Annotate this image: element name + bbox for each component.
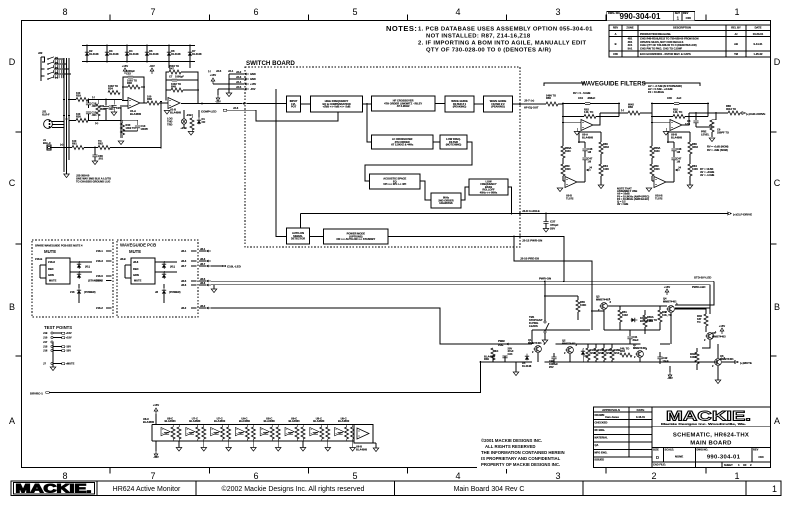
LED red [162, 261, 166, 269]
svg-text:100: 100 [76, 91, 81, 95]
CLF drive long wire [301, 213, 729, 215]
svg-text:4: 4 [455, 7, 460, 17]
svg-text:(PEAKING): (PEAKING) [453, 105, 467, 109]
svg-text:J19: J19 [43, 331, 48, 335]
diode D4 [522, 354, 532, 368]
svg-text:+2dB <-> 0dB <-> -2dB: +2dB <-> 0dB <-> -2dB [323, 105, 351, 109]
LED green [162, 271, 166, 279]
svg-text:SPARE WAVEGUIDE PCB-SEE NOTE 4: SPARE WAVEGUIDE PCB-SEE NOTE 4 [35, 244, 83, 248]
block waveguide filter 1 [445, 96, 474, 112]
svg-text:1000: 1000 [654, 167, 660, 171]
svg-text:DRAWN: DRAWN [595, 413, 605, 417]
capacitor C41 [604, 330, 639, 345]
svg-text:MUTE: MUTE [129, 249, 141, 254]
svg-text:J2-4: J2-4 [236, 80, 242, 84]
driver cell U9-C 6 [285, 416, 305, 441]
svg-text:GND: GND [250, 77, 256, 81]
svg-text:4643: 4643 [654, 149, 660, 153]
svg-text:2213: 2213 [614, 351, 620, 355]
svg-text:AT 2.2KHZ & 44Hz: AT 2.2KHZ & 44Hz [391, 143, 414, 147]
svg-text:TL072: TL072 [566, 196, 574, 200]
size scale dwg row [652, 448, 771, 463]
svg-text:CHG P/N TO PKG. CHG TO C.DWF: CHG P/N TO PKG. CHG TO C.DWF [640, 47, 683, 51]
driver cell ground [325, 441, 331, 451]
svg-text:J8-6: J8-6 [181, 283, 187, 287]
svg-text:PWR-LED: PWR-LED [692, 285, 706, 289]
svg-text:BLA4560: BLA4560 [214, 419, 226, 423]
driver cell U7-C 2 [186, 416, 206, 441]
op-amp U1-A [122, 98, 147, 116]
svg-text:MUTE: MUTE [49, 279, 57, 283]
svg-text:Z16-B: Z16-B [35, 257, 42, 261]
svg-text:9-14-01: 9-14-01 [754, 42, 763, 46]
driver cell ground [226, 441, 232, 451]
svg-text:J8-7: J8-7 [200, 262, 206, 266]
svg-text:D: D [774, 57, 781, 67]
svg-text:AT 2.2KHZ: AT 2.2KHZ [397, 104, 410, 108]
svg-text:A: A [9, 416, 15, 426]
driver row rails [152, 424, 373, 426]
svg-text:J17: J17 [43, 340, 48, 344]
svg-text:C00: C00 [613, 52, 618, 56]
svg-text:1/8: 1/8 [677, 150, 681, 154]
svg-text:10-23-01: 10-23-01 [753, 32, 764, 36]
mute relay box [131, 258, 155, 284]
svg-text:RV = 0 - 5.0dB: RV = 0 - 5.0dB [573, 91, 590, 95]
driver row end ground [373, 443, 379, 452]
svg-text:4643: 4643 [692, 145, 698, 149]
svg-text:TEST POINTS: TEST POINTS [44, 325, 72, 330]
transistor Q5 MMBT4403 [706, 331, 727, 339]
connector J21 XLR [42, 110, 64, 129]
driver cell U7-C 3 [211, 416, 231, 441]
svg-text:C44: C44 [578, 96, 583, 100]
wires PWR-ON turning down [675, 281, 714, 305]
svg-text:-15V: -15V [250, 87, 256, 91]
svg-text:BLA4560: BLA4560 [189, 419, 201, 423]
power resistor Z-power [155, 284, 181, 303]
SPARE WAVEGUIDE PCB-SEE NOTE 4 dashed box [32, 240, 113, 317]
zone tick marks left [16, 131, 22, 133]
bus junction dots [68, 99, 70, 101]
svg-text:MMBT4403: MMBT4403 [712, 335, 726, 339]
svg-text:J8-5: J8-5 [200, 277, 206, 281]
svg-text:+15V: +15V [719, 324, 725, 328]
svg-text:(+)CLF-DRIVE: (+)CLF-DRIVE [733, 212, 752, 216]
svg-text:BLA4560: BLA4560 [143, 420, 155, 424]
svg-text:2003 TO: 2003 TO [169, 64, 179, 68]
svg-text:J2-5: J2-5 [236, 85, 242, 89]
svg-text:+15V: +15V [210, 73, 216, 77]
output stage junctions [544, 361, 546, 363]
filter ladder left column [650, 123, 661, 181]
svg-text:BLA4560: BLA4560 [582, 135, 594, 139]
diode D6 DL4148 [167, 45, 181, 63]
svg-text:MMBT4401: MMBT4401 [528, 341, 542, 345]
svg-text:BLA4560: BLA4560 [164, 419, 176, 423]
svg-text:SWITCH BOARD: SWITCH BOARD [246, 60, 295, 67]
svg-text:QA: QA [595, 443, 599, 447]
driver cell U9-C 8 [335, 416, 355, 441]
svg-text:DESCRIPTION: DESCRIPTION [673, 26, 691, 30]
svg-text:BLA4560: BLA4560 [313, 419, 325, 423]
svg-text:33uF: 33uF [633, 338, 639, 342]
diode D5 DL4148 [145, 45, 159, 63]
svg-text:RED: RED [48, 267, 54, 271]
svg-text:8: 8 [62, 471, 67, 481]
svg-text:REV: REV [683, 11, 689, 15]
svg-text:TM: TM [734, 52, 738, 56]
ground header [226, 93, 232, 97]
revision table [609, 25, 771, 57]
svg-text:4: 4 [455, 471, 460, 481]
svg-text:HF-EQ-OUT: HF-EQ-OUT [524, 106, 539, 110]
auto-on sense riser [300, 214, 302, 229]
svg-text:CR: CR [202, 120, 206, 124]
power +24V arrow [180, 126, 186, 130]
svg-text:GND: GND [250, 72, 256, 76]
svg-text:BLA4560: BLA4560 [288, 419, 300, 423]
svg-text:XLR-F: XLR-F [42, 113, 50, 117]
svg-text:D: D [656, 455, 659, 460]
svg-text:140, TO: 140, TO [673, 110, 682, 114]
svg-text:GRN: GRN [48, 273, 54, 277]
svg-text:Z16-2: Z16-2 [96, 306, 103, 310]
svg-text:B: B [774, 302, 780, 312]
HF-EQ-OUT label [518, 103, 523, 106]
svg-text:REV: REV [753, 448, 759, 452]
svg-text:©2001 MACKIE DESIGNS INC.: ©2001 MACKIE DESIGNS INC. [481, 438, 542, 443]
svg-text:AV = 0dB: AV = 0dB [617, 202, 628, 206]
svg-text:WAVEGUIDE FILTERS: WAVEGUIDE FILTERS [581, 81, 645, 88]
svg-text:J2-8 C-HOLE: J2-8 C-HOLE [522, 209, 540, 213]
zone tick marks bottom [109, 468, 111, 474]
svg-text:TRD: TRD [167, 123, 172, 127]
svg-text:C20: C20 [116, 106, 121, 110]
block LF bass rolloff [469, 179, 508, 195]
resistor R62 [84, 139, 110, 150]
svg-text:2490 TO: 2490 TO [546, 94, 556, 98]
svg-text:ZONE: ZONE [626, 26, 633, 30]
svg-text:-15V: -15V [66, 349, 72, 353]
svg-text:J2-3: J2-3 [236, 75, 242, 79]
svg-text:HIGHPASS: HIGHPASS [439, 201, 453, 205]
svg-text:BLA4560: BLA4560 [671, 135, 683, 139]
svg-text:100: 100 [147, 95, 152, 99]
test point common wire [50, 342, 56, 371]
svg-text:1/16: 1/16 [685, 122, 691, 126]
svg-text:MUTE: MUTE [134, 279, 142, 283]
block HF crossover [371, 96, 435, 111]
svg-text:-15V: -15V [215, 100, 221, 104]
filter sub op-amp [557, 177, 585, 201]
svg-text:(POWER): (POWER) [84, 290, 96, 294]
svg-text:NOTES:: NOTES: [386, 24, 417, 33]
svg-text:2490 TO: 2490 TO [647, 318, 657, 322]
resistor R29 [69, 91, 122, 102]
svg-text:D: D [9, 57, 16, 67]
block high frequency EQ [311, 96, 363, 112]
gain spec text filter 2 [700, 167, 714, 177]
connector J22 1/4 inch jack [38, 51, 45, 81]
WAVEGUIDE PCB dashed box [117, 240, 198, 317]
svg-text:249, TO: 249, TO [620, 347, 629, 351]
capacitor C19 .001 [103, 99, 114, 122]
driver cell ground [176, 441, 182, 451]
resistor R61 [60, 139, 84, 150]
svg-text:J2-10 PRE-D8: J2-10 PRE-D8 [520, 257, 539, 261]
svg-text:DL4148: DL4148 [192, 52, 202, 56]
svg-text:BLA4560: BLA4560 [170, 110, 182, 114]
svg-text:J8-8: J8-8 [133, 260, 139, 264]
+15V at Q5 [719, 324, 725, 334]
capacitor C18 .001 [86, 100, 97, 109]
capacitor C45 series feedback [651, 96, 709, 105]
svg-text:BLA4560: BLA4560 [130, 112, 142, 116]
node labels J2 top [208, 69, 234, 73]
ground J8 [211, 285, 217, 293]
wire PWB to Q1 [511, 343, 532, 345]
svg-text:DETECTOR: DETECTOR [291, 237, 305, 241]
svg-text:+15V: +15V [122, 64, 128, 68]
svg-text:1: 1 [734, 471, 739, 481]
TM1 switch [529, 280, 549, 343]
driver cell ground [350, 441, 356, 451]
svg-text:(STANDBY): (STANDBY) [88, 279, 102, 283]
svg-text:RV = +1dB (NOM): RV = +1dB (NOM) [707, 145, 729, 149]
svg-text:6: 6 [253, 7, 258, 17]
svg-text:C: C [9, 178, 16, 188]
svg-text:1002 TO: 1002 TO [126, 126, 136, 130]
svg-text:REV: REV [613, 26, 619, 30]
svg-text:6042: 6042 [628, 103, 634, 107]
ground at input bus bottom [64, 172, 70, 178]
header pins J2 [213, 70, 256, 91]
svg-text:(POWER): (POWER) [169, 290, 181, 294]
long wire STD-BY [211, 284, 710, 286]
diode D48 [631, 316, 654, 323]
power +15V label top [123, 68, 127, 74]
transistor Q7 [633, 343, 647, 357]
svg-text:1-25-02: 1-25-02 [754, 52, 763, 56]
svg-text:100PF: 100PF [141, 127, 149, 131]
svg-text:MATERIAL: MATERIAL [595, 436, 609, 440]
block acoustic space EQ [370, 174, 420, 189]
power -15V label top [150, 68, 154, 74]
driver cell ground [201, 441, 207, 451]
wire notch to acoustic space [365, 142, 472, 181]
svg-text:SCHEMATIC, HR624-THX: SCHEMATIC, HR624-THX [673, 433, 749, 439]
block 80Hz highpass [431, 193, 461, 208]
svg-text:J8-B: J8-B [120, 257, 126, 261]
PRE-D8 wire [513, 236, 592, 311]
resistor R38 [147, 95, 168, 106]
title block [594, 407, 771, 468]
svg-text:J15: J15 [43, 345, 48, 349]
svg-text:3013 TO: 3013 TO [726, 107, 736, 111]
svg-text:TO: TO [98, 139, 102, 143]
svg-text:BLA4560: BLA4560 [338, 419, 350, 423]
svg-text:1/8: 1/8 [677, 160, 681, 164]
diode D7 DL4148 [188, 45, 202, 63]
svg-text:(XL): (XL) [85, 265, 90, 269]
svg-text:C: C [774, 178, 781, 188]
resistor R52 feedback [562, 108, 619, 119]
block auto-on detector [287, 228, 310, 244]
svg-text:+15V: +15V [664, 285, 670, 289]
resistor R34 [108, 84, 120, 95]
svg-text:MAIN BOARD: MAIN BOARD [690, 441, 732, 447]
filter caps column [579, 142, 593, 182]
diode D3 DL4148 [105, 45, 119, 63]
transistor pin numbers [532, 300, 726, 368]
signal chain wires [247, 103, 287, 105]
svg-text:J8-1: J8-1 [181, 249, 187, 253]
ground under C30 [92, 161, 98, 165]
svg-text:+15V: +15V [153, 403, 159, 407]
DRVRC-1 node label [30, 391, 49, 395]
svg-text:Z16-5: Z16-5 [96, 274, 103, 278]
svg-text:J22: J22 [38, 51, 43, 55]
capacitor C37 470pF [543, 213, 558, 233]
capacitor C42b [657, 352, 669, 364]
resistor R31 divider [96, 99, 106, 122]
svg-text:J8-6: J8-6 [200, 281, 206, 285]
capacitor C22 1000pF feedback [123, 69, 144, 103]
svg-text:B: B [615, 42, 617, 46]
svg-text:J8-2: J8-2 [200, 304, 206, 308]
svg-text:MMBT4401: MMBT4401 [562, 342, 576, 346]
mute output arrow [722, 361, 752, 365]
svg-text:1002 TO: 1002 TO [127, 79, 137, 83]
svg-text:(+): (+) [60, 143, 63, 147]
svg-text:25V: 25V [549, 365, 554, 369]
svg-text:©2002 Mackie Designs Inc. All: ©2002 Mackie Designs Inc. All rights res… [222, 485, 365, 493]
zone tick marks right [771, 131, 777, 133]
svg-text:J8-3: J8-3 [200, 257, 206, 261]
svg-text:(-): (-) [92, 95, 95, 99]
resistor R43 mid [620, 347, 632, 358]
svg-text:1002 TO: 1002 TO [108, 84, 118, 88]
svg-text:-15V: -15V [153, 455, 159, 459]
svg-text:QTY OF 730-028-00 TO 0 (DENOTE: QTY OF 730-028-00 TO 0 (DENOTES A/R) [426, 48, 551, 54]
capacitor C40 1000uF [549, 353, 558, 369]
svg-text:J2-1: J2-1 [228, 69, 234, 73]
svg-text:GRN: GRN [133, 273, 139, 277]
resistor R42 [630, 305, 672, 330]
svg-text:DL4148: DL4148 [522, 364, 532, 368]
pin stubs [96, 249, 112, 253]
svg-text:RV = -3dB (NOM): RV = -3dB (NOM) [707, 148, 728, 152]
driver cell ground [300, 441, 306, 451]
mute relay box [46, 258, 70, 284]
svg-text:HR624 Active Monitor: HR624 Active Monitor [113, 486, 181, 493]
mackie logo title block [652, 409, 771, 427]
filter J4 tap arrows [673, 166, 681, 172]
svg-text:Z16-8: Z16-8 [48, 260, 55, 264]
svg-text:IS PROPRIETARY AND CONFIDENTIA: IS PROPRIETARY AND CONFIDENTIAL [481, 456, 561, 461]
capacitor C7 1000pF feedback [166, 72, 198, 81]
resistor R66 output [689, 104, 742, 115]
svg-text:J16: J16 [43, 349, 48, 353]
wire from J1 row up to U1-A loop [110, 147, 161, 149]
svg-text:1/8: 1/8 [588, 160, 592, 164]
wire LF crossover to notch [433, 141, 440, 143]
filter vertical joins [562, 104, 564, 123]
svg-text:(PEAKING): (PEAKING) [491, 105, 505, 109]
svg-text:REL BY: REL BY [731, 26, 741, 30]
svg-text:PRODUCTION RELEASE.: PRODUCTION RELEASE. [640, 32, 671, 36]
svg-text:5: 5 [352, 7, 357, 17]
capacitor C20 [111, 99, 121, 116]
svg-text:1002 TO: 1002 TO [171, 82, 181, 86]
svg-text:Mackie Designs Inc. Woodinv: Mackie Designs Inc. Woodinville, Wa. [661, 422, 746, 426]
schematic title [652, 433, 771, 448]
svg-text:TO: TO [697, 320, 701, 324]
svg-text:-15V: -15V [149, 64, 155, 68]
svg-text:J8-1: J8-1 [200, 247, 206, 251]
resistor R55 [576, 296, 586, 320]
filter resistor column right [578, 132, 609, 189]
svg-text:J8-3: J8-3 [181, 259, 187, 263]
svg-text:MACKIE.: MACKIE. [16, 482, 92, 496]
svg-text:DL4148: DL4148 [129, 52, 139, 56]
svg-text:100: 100 [76, 112, 81, 116]
svg-text:0Pt <-> 2Pt <-> 4Pt: 0Pt <-> 2Pt <-> 4Pt [383, 182, 406, 186]
connector J1 TRS input [43, 138, 65, 150]
svg-text:10K, TO: 10K, TO [662, 313, 672, 317]
output stage bus wires [532, 329, 590, 331]
svg-text:Main Board 304 Rev C: Main Board 304 Rev C [454, 486, 525, 493]
filter specs text [573, 84, 682, 95]
svg-text:ISSUED: ISSUED [595, 458, 605, 462]
svg-text:PWR-ON: PWR-ON [539, 276, 551, 280]
op-amp U6-C label [143, 417, 155, 424]
svg-text:DATE: DATE [637, 408, 645, 412]
pre level trimpot [701, 113, 729, 152]
svg-text:Z16: Z16 [70, 290, 75, 294]
resistor R52 feedback [651, 108, 708, 119]
svg-text:1002: 1002 [622, 313, 628, 317]
svg-text:1/8: 1/8 [588, 150, 592, 154]
driver row +15V feed [153, 403, 159, 425]
svg-text:1000: 1000 [565, 167, 571, 171]
cad file row [653, 462, 752, 468]
test point J7 [43, 362, 75, 366]
svg-text:PROPERTY OF MACKIE DESIGNS INC: PROPERTY OF MACKIE DESIGNS INC. [481, 462, 560, 467]
svg-text:C00: C00 [758, 455, 764, 459]
svg-text:990-304-01: 990-304-01 [620, 12, 661, 21]
svg-text:(+): (+) [95, 121, 98, 125]
svg-text:MUTE: MUTE [44, 249, 56, 254]
svg-text:B: B [9, 302, 15, 312]
svg-text:J8-5: J8-5 [181, 279, 187, 283]
wire auto-on to power mode [310, 236, 324, 238]
resistor R51 [618, 305, 628, 330]
resistor R30 [69, 112, 121, 125]
svg-text:ON <-> AUTO-ON <-> STANDBY: ON <-> AUTO-ON <-> STANDBY [336, 237, 375, 241]
svg-text:J10: J10 [43, 336, 48, 340]
driver cell U8-C 1 [161, 416, 181, 441]
chassis ground note [76, 174, 111, 184]
svg-text:5A1: 5A1 [628, 47, 633, 51]
CHF-DRIVE output label [742, 112, 765, 116]
DRVRC-1 long wire [49, 362, 481, 392]
svg-text:+MUTE: +MUTE [66, 362, 75, 366]
svg-text:A: A [774, 416, 780, 426]
svg-text:C7: C7 [169, 75, 173, 79]
capacitor C44 series feedback [562, 96, 620, 105]
